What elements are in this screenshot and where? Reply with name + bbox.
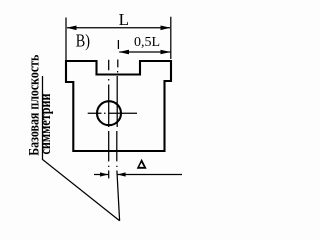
- arrowhead 0,5L left: [119, 50, 129, 55]
- label Δ: [137, 159, 147, 169]
- arrowhead L left: [67, 26, 77, 31]
- centerline: base symmetry plane (vertical dash-dot): [117, 40, 120, 221]
- svg-text:симметрии: симметрии: [38, 93, 54, 154]
- hole circle: [97, 101, 121, 125]
- arrowhead Δ left (points right): [100, 172, 108, 176]
- arrowhead 0,5L right: [161, 50, 171, 55]
- svg-text:0,5L: 0,5L: [134, 35, 160, 50]
- arrowhead Δ right (points left): [117, 172, 125, 176]
- part outline: [66, 61, 171, 151]
- dimension line 0,5L: [119, 51, 170, 53]
- dimension Δ right tail: [117, 174, 182, 176]
- dimension Δ left tail: [94, 174, 108, 176]
- centerline: hole axis (vertical dash-dot): [108, 60, 110, 179]
- extension line left (for L): [65, 18, 67, 61]
- leader polyline from note text to base plane: [43, 76, 120, 221]
- svg-text:В): В): [76, 30, 90, 50]
- centerline: horizontal through hole: [88, 112, 137, 114]
- svg-text:L: L: [119, 10, 129, 29]
- dimension line L: [67, 27, 170, 29]
- arrowhead L right: [161, 26, 171, 31]
- extension line right (for L and 0.5L): [170, 17, 172, 59]
